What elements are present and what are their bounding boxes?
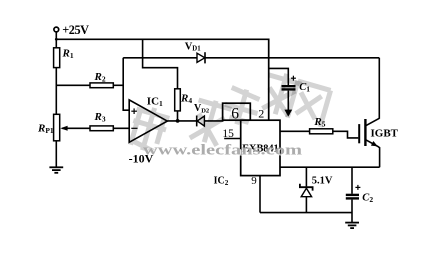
wire R3 to op-amp bbox=[113, 127, 129, 129]
terminal +25V bbox=[54, 27, 59, 32]
resistor R4 bbox=[175, 89, 181, 111]
diode VD1 bbox=[197, 53, 205, 62]
node top bus junction bbox=[55, 38, 58, 41]
watermark chinese glyph 4 bbox=[259, 69, 303, 119]
wire R4 lower lead bbox=[177, 111, 179, 121]
wire op-amp output bbox=[167, 120, 197, 122]
diode VD2 bbox=[196, 116, 198, 127]
label plus C2 bbox=[355, 185, 360, 190]
resistor R2 bbox=[90, 83, 113, 88]
arrow C1 to ground bbox=[284, 110, 292, 117]
wiper arrow of RP bbox=[60, 126, 67, 131]
watermark chinese glyph 5 bbox=[287, 81, 330, 127]
wire VD2 to pin6 box bbox=[204, 120, 223, 122]
wire block to R5 bbox=[280, 130, 310, 132]
svg-text:9: 9 bbox=[251, 175, 257, 187]
wire C1 branch bbox=[269, 68, 289, 85]
resistor R1 bbox=[54, 48, 60, 68]
ground under RP bbox=[49, 167, 63, 173]
op-amp minus input mark bbox=[131, 127, 137, 129]
watermark chinese glyph 1 bbox=[126, 103, 171, 155]
watermark chinese glyph 3 bbox=[220, 85, 263, 129]
wire R2 to inverting node bbox=[113, 84, 123, 86]
label plus C1 bbox=[291, 76, 296, 81]
wire top +25V bus bbox=[56, 39, 268, 120]
wire R2 branch bbox=[56, 84, 90, 86]
pin 15 underline bbox=[224, 138, 241, 140]
IC2 block EXB841 bbox=[241, 120, 280, 175]
svg-text:5.1V: 5.1V bbox=[312, 175, 333, 186]
wire pin9 bbox=[259, 176, 261, 213]
wire inverting node vertical bbox=[123, 58, 129, 110]
capacitor C2 bbox=[351, 167, 353, 194]
resistor R5 bbox=[310, 129, 333, 134]
resistor R3 bbox=[90, 126, 113, 131]
svg-text:www.elecfans.com: www.elecfans.com bbox=[143, 142, 303, 158]
wire R5 to gate bbox=[333, 131, 359, 138]
wire ground rail bbox=[260, 212, 352, 214]
node output R4 junction bbox=[176, 119, 180, 123]
wire RP to ground bbox=[55, 141, 57, 167]
ground under C2 bbox=[345, 223, 359, 229]
potentiometer RP bbox=[54, 114, 60, 141]
pin box 6 bbox=[223, 103, 251, 120]
wire R4 to top bus bbox=[143, 39, 178, 89]
op-amp plus input mark bbox=[131, 108, 137, 114]
op-amp IC1 bbox=[129, 100, 167, 142]
watermark chinese glyph 2 bbox=[188, 96, 233, 147]
wire VD1 line left bbox=[123, 57, 197, 59]
zener diode 5.1V bbox=[305, 167, 307, 186]
svg-text:IGBT: IGBT bbox=[371, 128, 399, 140]
wire VD1 line right bbox=[205, 57, 379, 59]
transistor IGBT bbox=[359, 58, 379, 167]
wire R1 to RP bbox=[55, 68, 57, 115]
wire terminal to top bus bbox=[55, 32, 57, 48]
wire emitter rail bbox=[280, 166, 380, 168]
capacitor C1 bbox=[282, 85, 296, 87]
svg-text:C2: C2 bbox=[362, 193, 373, 205]
svg-text:+25V: +25V bbox=[62, 23, 89, 37]
wire C1 bottom lead bbox=[287, 91, 289, 111]
